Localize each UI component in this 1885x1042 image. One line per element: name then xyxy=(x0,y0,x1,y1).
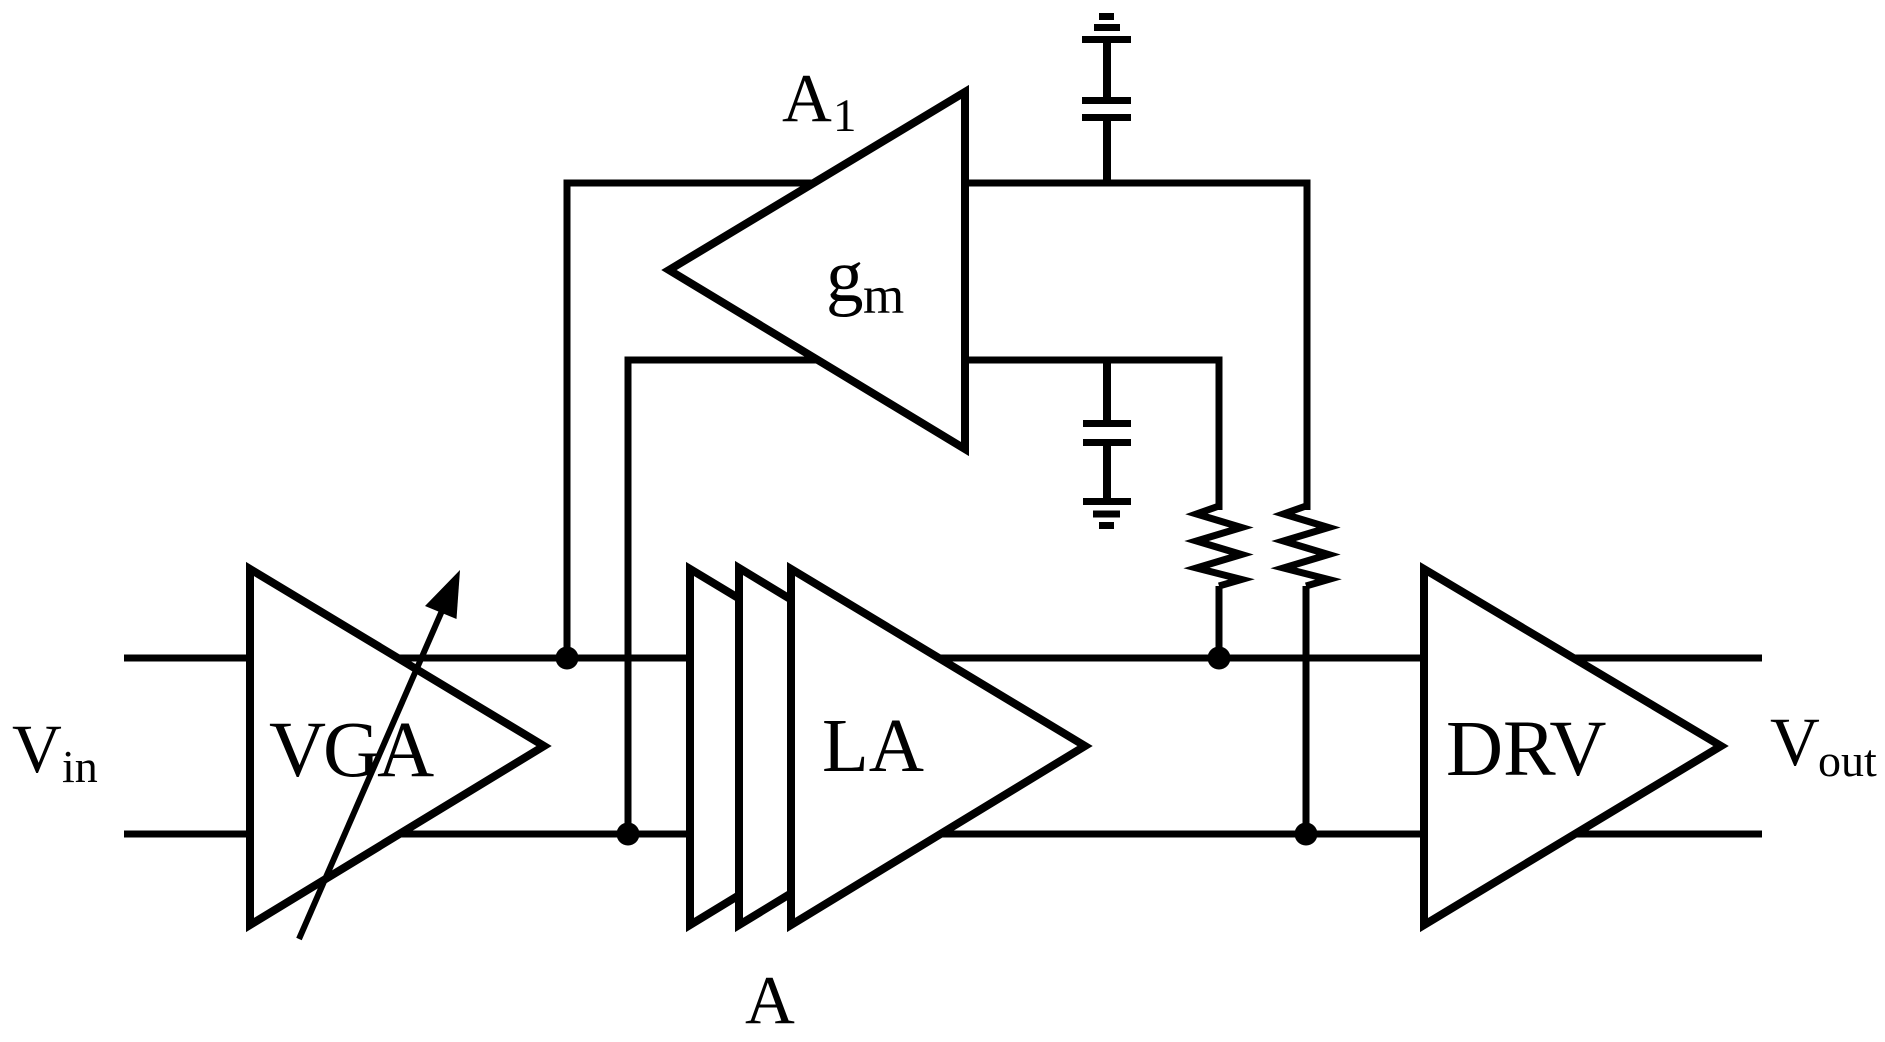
node A (junction dot, upper bus / top feedback) xyxy=(556,647,579,670)
svg-text:V: V xyxy=(1770,704,1820,780)
resistor R1 xyxy=(1197,506,1242,658)
svg-text:LA: LA xyxy=(822,703,924,788)
node B (junction dot, lower bus / inner feedback) xyxy=(617,823,640,846)
wire upper signal bus Vin to Vout xyxy=(124,655,1762,662)
label A1 (above gm) xyxy=(782,60,857,142)
capacitor C2 (bottom) xyxy=(1083,424,1131,499)
svg-text:m: m xyxy=(863,267,904,325)
label Vin xyxy=(12,711,98,792)
svg-text:1: 1 xyxy=(833,90,857,142)
resistor R2 xyxy=(1284,506,1329,834)
amplifier LA stage 3 xyxy=(791,569,1085,925)
svg-text:in: in xyxy=(62,741,98,792)
svg-text:VGA: VGA xyxy=(269,707,434,794)
svg-text:out: out xyxy=(1818,735,1877,786)
label gm xyxy=(826,235,904,325)
svg-text:A: A xyxy=(745,962,795,1038)
wire feedback top: from node A up, across gm top, right and down to resistor R2 xyxy=(567,183,1307,658)
wire lower signal bus Vin to Vout xyxy=(124,831,1762,838)
node C (junction dot, upper bus / R1) xyxy=(1208,647,1231,670)
wire bottom capacitor C2 stem xyxy=(1103,360,1111,420)
svg-text:V: V xyxy=(12,711,62,787)
svg-text:A: A xyxy=(782,60,832,136)
wire feedback inner: from node B up, across gm bottom, right and down to resistor R1 xyxy=(628,360,1219,834)
node D (junction dot, lower bus / R2) xyxy=(1295,823,1318,846)
amplifier LA stage 2 xyxy=(739,568,1033,925)
ground (inverted, above C1) xyxy=(1082,17,1131,40)
amplifier LA stage 1 xyxy=(690,569,984,925)
VGA gain-control arrow xyxy=(299,570,460,939)
capacitor C1 (top) xyxy=(1082,101,1131,184)
svg-text:g: g xyxy=(826,235,864,318)
label Vout xyxy=(1770,704,1877,786)
ground (below C2) xyxy=(1083,502,1131,526)
wire top capacitor C1 stem to ground xyxy=(1103,43,1111,97)
amplifier DRV xyxy=(1424,569,1721,925)
svg-text:DRV: DRV xyxy=(1446,706,1606,793)
op-amp gm (feedback amplifier A1, pointing left) xyxy=(669,92,965,449)
amplifier VGA xyxy=(250,569,544,925)
